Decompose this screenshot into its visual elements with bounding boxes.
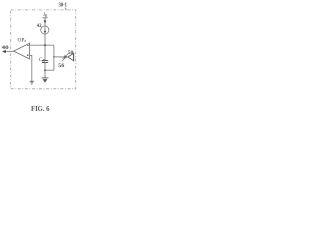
svg-text:50: 50 [68,51,74,56]
ground G2 [30,81,34,84]
right branch vertical wire [53,45,55,70]
junction node A [44,44,46,46]
current source internal arrowhead [44,31,47,34]
ground G1 triangle [43,79,48,83]
current source top bar [42,17,47,19]
svg-text:30-1: 30-1 [59,3,67,9]
output wire to terminal 50 [54,56,65,58]
current direction arrowhead [44,20,47,23]
bottom return wire [45,69,54,71]
junction node B [44,69,46,71]
wire from current source down to node [44,18,46,45]
capacitor CB top plate [42,60,48,62]
wire capacitor to ground [44,63,46,78]
capacitor CB bottom plate [42,62,48,64]
svg-text:40: 40 [2,46,10,51]
terminal 50 filled arrowhead [64,55,68,59]
leader line from 56 [62,56,67,61]
svg-text:OPa: OPa [18,37,27,43]
svg-text:56: 56 [58,64,65,69]
wire op-amp plus input down [30,55,32,81]
svg-text:IB: IB [42,12,48,18]
output wire to terminal 40 [5,50,14,52]
junction at output tee [53,56,55,58]
terminal 40 arrowhead [2,50,6,53]
ground G1 bar [42,77,49,79]
op-amp minus sign [27,45,29,47]
svg-text:42: 42 [37,24,42,29]
leader line from 50 [63,53,69,59]
dashed circuit block border 30-1 [11,10,76,89]
op-amp OPa triangle [14,43,30,59]
op-amp plus sign [27,54,29,56]
node wire (op-amp input to right branch) [30,44,54,46]
svg-text:FIG. 6: FIG. 6 [31,105,50,113]
current source circle [41,26,49,34]
terminal 50 bar [73,53,75,62]
leader line for 30-1 [65,8,67,10]
wire node to capacitor [44,45,46,60]
terminal 50 open triangle pad [68,53,74,60]
